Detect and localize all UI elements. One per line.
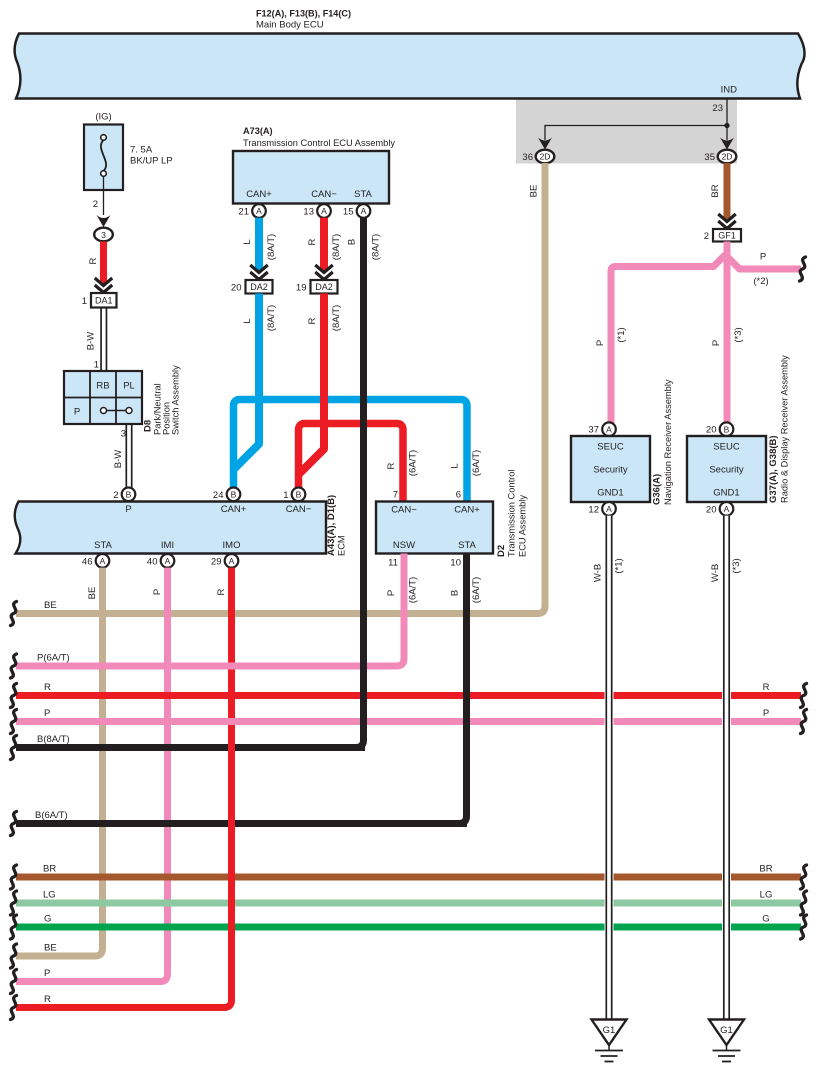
fuse element symbol (101, 140, 106, 171)
svg-text:B: B (296, 490, 302, 500)
svg-text:A: A (321, 206, 327, 216)
svg-text:IMO: IMO (223, 540, 241, 551)
svg-text:A43(A), D1(B): A43(A), D1(B) (326, 495, 337, 556)
svg-text:RB: RB (96, 381, 109, 392)
svg-text:F12(A), F13(B), F14(C): F12(A), F13(B), F14(C) (256, 9, 351, 19)
svg-text:10: 10 (450, 558, 461, 569)
wire R from ECM pin 29 to bottom rail (16, 568, 232, 1008)
svg-text:(6A/T): (6A/T) (471, 450, 482, 476)
svg-text:GF1: GF1 (718, 230, 736, 240)
wire P branch to G36 pin 37 (611, 255, 726, 425)
svg-text:(6A/T): (6A/T) (408, 450, 419, 476)
wire W-B (*1) from SEUC GND to ground (605, 516, 614, 1020)
svg-text:11: 11 (388, 558, 398, 569)
svg-text:P: P (125, 504, 131, 515)
arrow into 2D (35) (720, 138, 734, 150)
wire BE from 2D pin 36 down (16, 163, 545, 614)
svg-text:BE: BE (87, 587, 98, 600)
ECM pin 1 (292, 488, 306, 502)
ECU G37(A), G38(B) Radio and Display Receiver Assembly box (687, 436, 766, 502)
svg-text:13: 13 (303, 207, 314, 218)
svg-text:CAN−: CAN− (391, 505, 417, 516)
svg-text:G36(A): G36(A) (652, 474, 663, 505)
A73 pin 13 (317, 204, 331, 218)
svg-text:W-B: W-B (710, 564, 721, 582)
ECM pin 46 (96, 554, 110, 568)
wire G rail (16, 924, 801, 931)
svg-text:BR: BR (43, 864, 56, 875)
svg-text:R: R (307, 238, 318, 245)
torn end of wire B(8A/T) at left (11, 736, 17, 760)
svg-text:P: P (763, 708, 769, 719)
wire BE from ECM pin 46 to bottom rail (16, 568, 103, 956)
svg-text:R: R (386, 462, 397, 469)
svg-text:GND1: GND1 (713, 488, 739, 499)
svg-text:20: 20 (706, 425, 717, 436)
wire R from node 3 to DA1 (100, 242, 107, 285)
ECU A43(A), D1(B) ECM box (15, 502, 326, 554)
svg-text:P: P (760, 252, 766, 263)
svg-text:G1: G1 (720, 1025, 733, 1036)
wire R (8A/T) from A73 pin 13 (320, 218, 328, 271)
svg-text:STA: STA (94, 540, 112, 551)
wire BR from 2D pin 35 (724, 163, 731, 220)
svg-text:A: A (724, 504, 730, 514)
svg-text:P(6A/T): P(6A/T) (37, 653, 70, 664)
torn end of wire BR at left (11, 865, 17, 889)
svg-text:(8A/T): (8A/T) (331, 234, 342, 260)
G37 pin 20 (bottom) (720, 502, 734, 516)
svg-text:7: 7 (393, 490, 398, 501)
svg-text:B: B (347, 239, 358, 245)
svg-text:STA: STA (458, 540, 476, 551)
svg-text:1: 1 (94, 360, 99, 371)
svg-text:DA1: DA1 (95, 295, 113, 305)
A73 pin 15 (357, 204, 371, 218)
svg-text:P: P (44, 968, 50, 979)
svg-text:P: P (74, 407, 80, 418)
svg-text:G: G (44, 914, 51, 925)
G36 pin 12 (602, 502, 616, 516)
svg-text:P: P (711, 340, 722, 346)
svg-text:35: 35 (704, 152, 715, 163)
ECU D2 Transmission Control ECU Assembly box (376, 502, 493, 554)
svg-text:Security: Security (593, 465, 628, 476)
svg-text:19: 19 (296, 282, 307, 293)
svg-text:R: R (307, 317, 318, 324)
svg-text:Security: Security (709, 465, 744, 476)
svg-text:CAN+: CAN+ (246, 189, 272, 200)
svg-text:BR: BR (759, 864, 772, 875)
svg-text:3: 3 (101, 230, 106, 240)
svg-text:24: 24 (213, 490, 224, 501)
svg-text:R: R (44, 682, 51, 693)
svg-text:Navigation Receiver Assembly: Navigation Receiver Assembly (663, 379, 673, 505)
svg-text:36: 36 (522, 152, 533, 163)
svg-text:Transmission Control: Transmission Control (507, 470, 517, 558)
svg-text:B(6A/T): B(6A/T) (35, 810, 68, 821)
svg-text:15: 15 (343, 207, 354, 218)
svg-text:CAN−: CAN− (311, 189, 337, 200)
wire BR rail (16, 874, 801, 881)
torn end of wire B(6A/T) at left (11, 812, 17, 836)
svg-text:IND: IND (721, 85, 738, 96)
svg-text:A: A (229, 556, 235, 566)
svg-text:2D: 2D (540, 152, 551, 162)
wire B-W from D8 pin 3 to ECM pin 2 (125, 424, 127, 488)
svg-text:(IG): (IG) (95, 112, 111, 123)
svg-text:2: 2 (704, 231, 709, 242)
svg-text:(*1): (*1) (616, 327, 627, 342)
wire CAN+ bus: ECM pin 24 to D2 pin 6 (234, 400, 468, 502)
svg-text:A: A (606, 424, 612, 434)
svg-text:(*3): (*3) (733, 327, 744, 342)
svg-text:L: L (242, 239, 253, 244)
svg-text:IMI: IMI (161, 540, 174, 551)
ECM pin 40 (161, 554, 175, 568)
torn end of wire R at right (801, 684, 807, 708)
svg-text:A: A (165, 556, 171, 566)
svg-text:CAN+: CAN+ (221, 504, 247, 515)
svg-text:DA2: DA2 (250, 282, 268, 292)
svg-text:W-B: W-B (593, 564, 604, 582)
svg-text:(*3): (*3) (731, 558, 742, 573)
wire CAN- bus: ECM pin 1 to D2 pin 7 (299, 424, 404, 502)
svg-text:D2: D2 (496, 545, 507, 557)
connector GF1 pin 2 (713, 229, 741, 242)
wire from fuse pin 2 (103, 176, 105, 215)
svg-text:P: P (386, 590, 397, 596)
G36 pin 37 (602, 422, 616, 436)
svg-text:Switch Assembly: Switch Assembly (171, 365, 181, 435)
svg-text:B: B (231, 490, 237, 500)
svg-text:12: 12 (588, 504, 599, 515)
svg-text:BE: BE (44, 600, 57, 611)
svg-text:2: 2 (93, 199, 98, 210)
svg-text:B: B (450, 590, 461, 596)
torn end of wire BE at left (11, 602, 17, 626)
wire from pin 23 (726, 99, 728, 126)
wire LG rail (16, 900, 801, 907)
svg-text:LG: LG (760, 890, 773, 901)
svg-text:BK/UP LP: BK/UP LP (130, 156, 173, 167)
svg-text:3: 3 (121, 429, 126, 440)
svg-text:ECU Assembly: ECU Assembly (518, 495, 528, 557)
svg-text:37: 37 (588, 425, 599, 436)
svg-text:A73(A): A73(A) (243, 126, 273, 136)
fuse BK/UP LP box (84, 125, 123, 191)
svg-text:(*2): (*2) (753, 276, 768, 287)
arrow into GF1 (718, 214, 736, 222)
arrow into node 3 (97, 215, 111, 227)
torn end of wire BE at left (11, 944, 17, 968)
svg-text:SEUC: SEUC (713, 442, 740, 453)
svg-text:L: L (450, 463, 461, 468)
switch D8 Park/Neutral Position Switch Assembly (64, 371, 142, 424)
node 3 oval (94, 228, 113, 242)
wire L (8A/T) from A73 pin 21 (255, 218, 263, 271)
svg-text:A: A (361, 206, 367, 216)
connector 2D pin 35 (718, 150, 737, 164)
svg-text:STA: STA (354, 189, 372, 200)
wire B(8A/T) rail (16, 744, 365, 751)
svg-text:(6A/T): (6A/T) (408, 577, 419, 603)
arrow into DA2 (19) (315, 265, 333, 273)
arrow into DA2 (20) (250, 265, 268, 273)
svg-text:29: 29 (211, 556, 222, 567)
svg-text:2D: 2D (722, 152, 733, 162)
wire B(6A/T) rail (16, 820, 467, 827)
gray harness region (516, 99, 737, 164)
svg-text:23: 23 (712, 103, 723, 114)
torn end of wire LG at left (11, 891, 17, 915)
svg-text:CAN+: CAN+ (454, 505, 480, 516)
torn end of wire R at left (11, 684, 17, 708)
wire B(8A/T) from A73 pin 15 (348, 218, 364, 748)
svg-text:(8A/T): (8A/T) (371, 234, 382, 260)
svg-text:NSW: NSW (393, 540, 415, 551)
svg-text:DA2: DA2 (315, 282, 333, 292)
svg-text:BE: BE (44, 943, 57, 954)
connector DA2 pin 20 (246, 280, 273, 294)
svg-text:B-W: B-W (86, 332, 97, 351)
torn end of wire P at right (801, 710, 807, 734)
wire B(6A/T) from D2 pin 10 (451, 554, 467, 824)
svg-text:L: L (242, 318, 253, 323)
svg-text:G: G (762, 914, 769, 925)
svg-text:GND1: GND1 (597, 488, 623, 499)
torn end of wire G at left (11, 915, 17, 939)
svg-text:6: 6 (456, 490, 461, 501)
ECM pin 2 (122, 488, 136, 502)
svg-text:ECM: ECM (337, 535, 347, 556)
A73 pin 21 (252, 204, 266, 218)
svg-text:R: R (44, 994, 51, 1005)
svg-text:B: B (126, 490, 132, 500)
wire P from ECM pin 40 to bottom rail (16, 568, 168, 982)
svg-text:(8A/T): (8A/T) (266, 234, 277, 260)
ECM pin 24 (227, 488, 241, 502)
svg-text:(*1): (*1) (614, 558, 625, 573)
wire L (8A/T) below DA2 (235, 294, 260, 469)
svg-text:21: 21 (238, 207, 249, 218)
svg-text:(8A/T): (8A/T) (331, 305, 342, 331)
ground G1 (709, 1020, 744, 1046)
torn end of wire LG at right (801, 891, 807, 915)
wire P (*2) branch to right (728, 258, 801, 270)
junction node on pin-23 wire (724, 123, 729, 128)
svg-text:7. 5A: 7. 5A (130, 145, 153, 156)
svg-text:(6A/T): (6A/T) (471, 577, 482, 603)
svg-text:Radio & Display Receiver Assem: Radio & Display Receiver Assembly (780, 355, 790, 503)
torn end of wire P at left (11, 710, 17, 734)
connector DA1 pin 1 (91, 293, 117, 308)
svg-text:LG: LG (43, 890, 56, 901)
svg-text:SEUC: SEUC (597, 442, 624, 453)
svg-text:46: 46 (82, 556, 93, 567)
svg-text:1: 1 (283, 490, 288, 501)
connector 2D pin 36 (536, 150, 555, 164)
svg-text:Transmission Control ECU Assem: Transmission Control ECU Assembly (243, 138, 395, 148)
svg-text:PL: PL (123, 381, 135, 392)
svg-text:A: A (256, 206, 262, 216)
svg-text:40: 40 (147, 556, 158, 567)
svg-text:B: B (724, 424, 730, 434)
wire W-B (*3) from SEUC GND to ground (722, 516, 731, 1020)
svg-text:Main Body ECU: Main Body ECU (256, 20, 324, 31)
svg-text:CAN−: CAN− (286, 504, 312, 515)
wire B-W from DA1 to D8 pin 1 (100, 308, 102, 372)
svg-text:R: R (763, 682, 770, 693)
connector DA2 pin 19 (311, 280, 338, 294)
torn end of wire P(6A/T) at left (11, 654, 17, 678)
svg-text:1: 1 (82, 296, 87, 307)
torn end of wire BR at right (801, 865, 807, 889)
svg-text:B(8A/T): B(8A/T) (37, 734, 70, 745)
svg-text:P: P (152, 589, 163, 595)
wire R (8A/T) below DA2 joining CAN- bus (300, 294, 325, 474)
torn end of wire P at left (11, 970, 17, 994)
svg-text:(8A/T): (8A/T) (266, 305, 277, 331)
ECU G36(A) Navigation Receiver Assembly box (571, 436, 650, 502)
wire P(6A/T) from D2 pin 11 to left (16, 554, 404, 667)
svg-text:P: P (44, 708, 50, 719)
wire P rail (16, 718, 801, 725)
wire branch to pin 35 (726, 126, 728, 141)
svg-text:G37(A), G38(B): G37(A), G38(B) (768, 435, 779, 503)
svg-text:A: A (606, 504, 612, 514)
G37 pin 20 (720, 422, 734, 436)
torn end of wire R at left (11, 996, 17, 1020)
svg-text:B-W: B-W (113, 450, 124, 469)
svg-text:R: R (216, 588, 227, 595)
svg-text:BE: BE (529, 185, 540, 198)
arrow into DA1 (95, 278, 113, 286)
svg-text:G1: G1 (603, 1025, 616, 1036)
ground G1 (592, 1020, 627, 1046)
D8 switch contacts (101, 408, 107, 414)
svg-text:BR: BR (710, 184, 721, 197)
torn end of wire G at right (801, 915, 807, 939)
svg-text:A: A (100, 556, 106, 566)
svg-text:R: R (88, 257, 99, 264)
svg-text:20: 20 (706, 504, 717, 515)
svg-text:2: 2 (113, 490, 118, 501)
ECU F12/F13/F14 Main Body ECU box (15, 34, 805, 99)
ECM pin 29 (225, 554, 239, 568)
wire R rail (16, 692, 801, 699)
wire P from GF1 splice (724, 242, 731, 425)
arrow into 2D (36) (538, 138, 552, 150)
svg-text:P: P (595, 340, 606, 346)
svg-text:20: 20 (231, 282, 242, 293)
torn end of P (*2) (800, 257, 806, 281)
wire branch to pin 36 (545, 126, 727, 141)
